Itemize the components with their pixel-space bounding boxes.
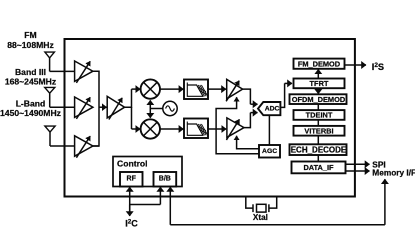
label FM band [7,30,54,50]
wire I2C up to RF [129,187,131,214]
wire TFRT up to FM_DEMOD [317,69,319,78]
svg-text:L-Band: L-Band [16,98,46,108]
wire A6 to ADC [244,113,258,128]
amplifier A4 (RF VGA) [107,96,124,119]
wire ADC down to AGC [268,115,270,145]
wire LO down arrow to M2 [149,109,151,118]
wire LO up arrow to M1 [149,100,151,108]
wire bottom bus [170,224,385,226]
block ECH_DECODE [290,144,347,155]
wire I2C branch to B/B [130,187,161,205]
filter F2 (lowpass) [184,119,208,139]
wire ADC to TFRT [280,83,292,107]
svg-text:I2C: I2C [125,218,138,228]
svg-text:TFRT: TFRT [310,79,329,88]
label I2S [372,62,384,72]
wire VITERBI to ECH_DECODE [317,136,319,145]
mixer M1 (I) [141,79,160,98]
svg-text:1450~1490MHz: 1450~1490MHz [0,108,61,118]
amplifier A6 (IF VGA Q) [226,118,244,140]
svg-text:FM_DEMOD: FM_DEMOD [298,60,341,69]
label Memory I/F [372,167,415,177]
wire TFRT down to OFDM_DEMOD [317,88,319,94]
block OFDM_DEMOD [290,94,347,104]
wire LO to mixers [150,108,163,110]
label I2C [125,218,138,228]
antenna ANT1 (FM) [45,52,55,71]
svg-text:AGC: AGC [262,148,277,155]
wire split to mixer M1 [132,88,141,90]
svg-text:VITERBI: VITERBI [304,127,333,136]
svg-text:DATA_IF: DATA_IF [303,163,334,172]
label L-Band [0,98,61,118]
block FM_DEMOD [294,59,345,69]
svg-text:TDEINT: TDEINT [306,111,333,120]
block RF control [120,172,143,187]
svg-text:Memory I/F: Memory I/F [372,167,415,177]
wire DATA_IF to SPI output [346,163,370,165]
block B/B control [154,172,177,187]
svg-text:88~108MHz: 88~108MHz [7,40,54,50]
wire OFDM_DEMOD to TDEINT [317,104,319,110]
wire AGC to amp A5 gain [216,97,259,154]
mixer M2 (Q) [141,119,160,138]
antenna ANT2 (Band III) [45,87,55,107]
label Xtal [253,213,268,222]
svg-text:Control: Control [117,158,148,168]
local oscillator LO [163,101,177,115]
wire AGC to amp A6 gain [237,136,259,149]
block DATA_IF [292,162,346,174]
wire split to mixer M2 arrow [132,128,141,130]
svg-text:Xtal: Xtal [253,213,268,222]
wire F2 to amp A6 [208,128,226,130]
ADC U1 [258,102,280,115]
wire bus up to Memory I/F [384,179,386,225]
svg-text:B/B: B/B [159,175,171,182]
wire FM_DEMOD to I2S output [345,64,366,66]
wire ANT3 to amp A3 [50,145,75,147]
svg-text:168~245MHz: 168~245MHz [5,76,56,86]
block TDEINT [294,110,345,120]
AGC block [259,145,280,158]
label SPI [372,160,385,170]
wire ECH_DECODE to DATA_IF [317,155,319,162]
svg-text:FM: FM [24,30,36,40]
svg-text:OFDM_DEMOD: OFDM_DEMOD [292,95,346,104]
svg-text:ECH_DECODE: ECH_DECODE [291,145,347,154]
label Band III [5,67,56,86]
amplifier A2 (Band III LNA) [75,97,93,119]
wire M2 to filter F2 [160,128,183,130]
block VITERBI [294,126,345,136]
block TFRT [294,79,345,89]
amplifier A5 (IF VGA I) [226,79,243,101]
amplifier A3 (L-Band LNA) [75,136,93,158]
wire A5 to ADC [243,89,258,104]
wire M1 to filter F1 [160,88,183,90]
antenna ANT3 (L-Band) [45,126,55,146]
wire I2C down arrow [129,205,131,217]
filter F1 (lowpass) [184,80,208,100]
svg-text:RF: RF [127,175,137,182]
wire DATA_IF to Memory output [346,170,370,172]
wire A3 out to bus [93,145,99,147]
crystal X1 [246,197,277,213]
wire TDEINT to VITERBI [317,120,319,126]
svg-text:I2S: I2S [372,62,384,72]
amplifier A1 (FM LNA) [75,61,93,83]
svg-text:ADC: ADC [265,106,280,113]
wire xtal bus up to B/B [169,187,171,225]
control block [113,157,182,187]
wire ANT2 to amp A2 [50,106,75,108]
wire bus to amp A4 [99,106,107,108]
outer chip box [65,39,355,197]
wire ANT1 to amp A1 [50,70,75,72]
wire split down to mixer M2 [131,107,133,129]
wire F1 to amp A5 [208,88,226,90]
wire LNA outputs combine [93,71,99,146]
wire A4 output split to mixers [125,89,132,107]
